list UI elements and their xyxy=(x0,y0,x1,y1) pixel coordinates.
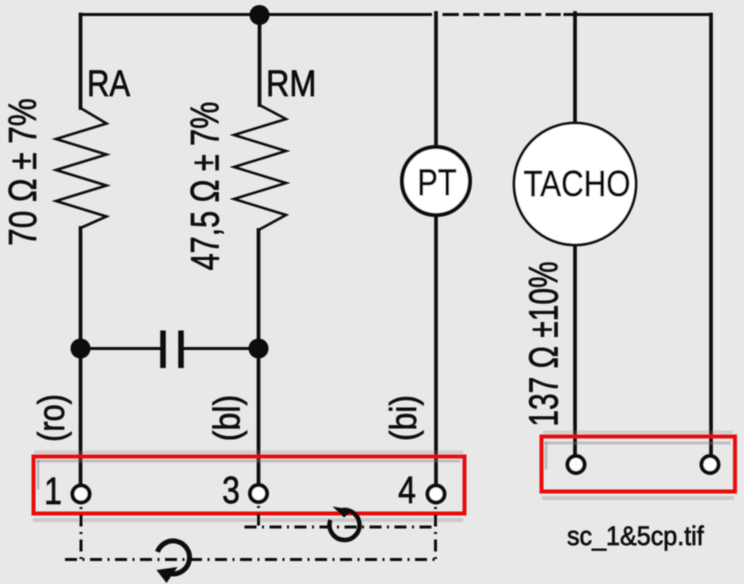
node junction dot right xyxy=(249,339,269,359)
rotation arrow upper xyxy=(330,507,360,540)
terminal tacho left xyxy=(568,456,585,473)
svg-text:PT: PT xyxy=(417,162,456,203)
svg-text:3: 3 xyxy=(222,469,240,511)
svg-text:4: 4 xyxy=(398,469,416,511)
tachogenerator TACHO xyxy=(514,123,636,245)
svg-text:1: 1 xyxy=(44,470,62,512)
wire left branch down to RA xyxy=(79,15,83,109)
wire right branch down xyxy=(709,15,713,457)
node junction dot top xyxy=(250,5,270,25)
wire dashdot below terminal 1 xyxy=(80,505,83,560)
svg-text:70 Ω ± 7%: 70 Ω ± 7% xyxy=(1,98,45,246)
scan ghost shading around red boxes xyxy=(33,431,734,523)
wire top bus dashed middle xyxy=(444,13,559,16)
wire TACHO bottom to terminal xyxy=(573,244,577,456)
svg-text:137 Ω ±10%: 137 Ω ±10% xyxy=(521,261,567,426)
svg-text:(bi): (bi) xyxy=(384,395,425,441)
wire dashdot horizontal lower xyxy=(65,558,436,561)
resistor RA xyxy=(56,108,107,228)
rotation arrow lower xyxy=(157,541,190,583)
terminal 4 xyxy=(428,486,445,503)
terminal 1 xyxy=(73,486,90,503)
wire capacitor right lead xyxy=(184,347,251,350)
svg-text:(ro): (ro) xyxy=(31,394,72,442)
capacitor C plates xyxy=(163,331,181,369)
svg-text:(bl): (bl) xyxy=(207,395,248,441)
svg-text:47,5 Ω ± 7%: 47,5 Ω ± 7% xyxy=(183,102,228,271)
wire top bus solid right xyxy=(565,13,711,16)
terminal 3 xyxy=(250,485,267,502)
node junction dot left xyxy=(71,339,91,359)
wire PT branch top xyxy=(434,13,438,147)
wire RM branch down xyxy=(258,15,262,105)
transducer PT U1 xyxy=(402,147,470,215)
wire top bus solid left xyxy=(81,13,431,16)
connector red box terminals 1 3 4 xyxy=(34,457,465,514)
connector red box tacho terminals xyxy=(542,437,736,492)
wire TACHO branch top xyxy=(573,13,577,124)
svg-text:RM: RM xyxy=(266,64,316,104)
measuring loop dash-dot wires xyxy=(65,504,436,560)
wire RM bottom to node xyxy=(257,230,261,484)
resistor RM xyxy=(234,105,286,230)
terminal tacho right xyxy=(702,456,719,473)
wire PT bottom to terminal 4 xyxy=(434,215,438,485)
wire capacitor left lead xyxy=(88,347,161,350)
svg-text:sc_1&5cp.tif: sc_1&5cp.tif xyxy=(567,520,704,551)
wire dashdot below terminal 4 xyxy=(434,505,437,560)
wire dashdot below terminal 3 xyxy=(257,504,260,527)
wire dashdot horizontal upper xyxy=(245,526,435,529)
svg-text:TACHO: TACHO xyxy=(524,164,631,205)
svg-text:RA: RA xyxy=(87,64,130,105)
wire RA bottom to node xyxy=(79,228,83,485)
